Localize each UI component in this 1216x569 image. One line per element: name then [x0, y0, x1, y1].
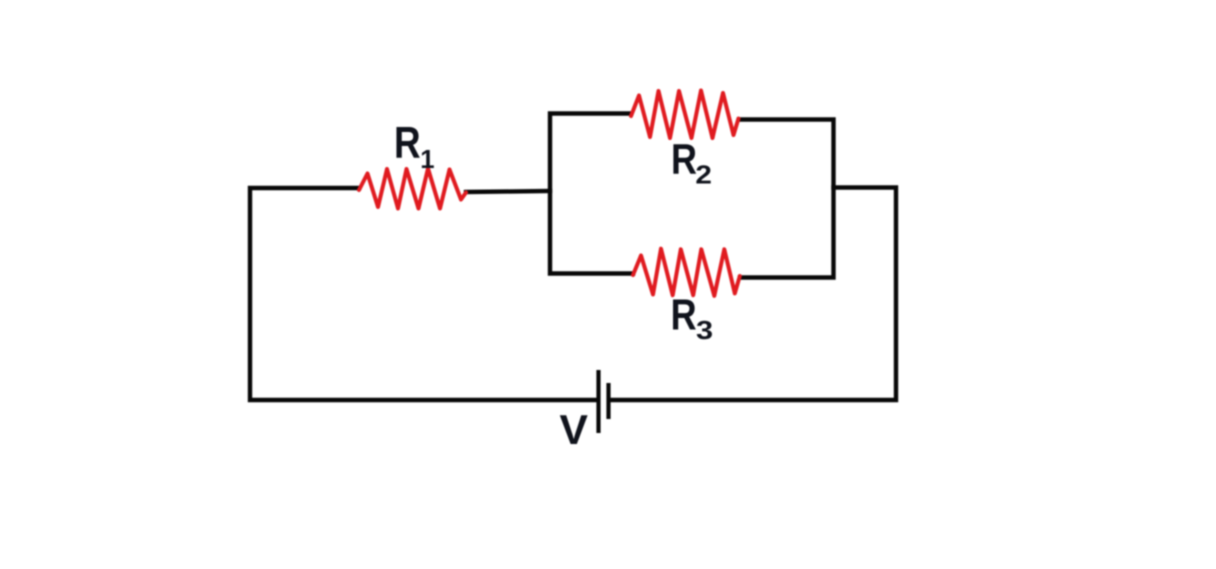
resistor R1 [359, 169, 466, 209]
svg-text:V: V [560, 406, 588, 453]
battery V: short plate [606, 383, 610, 419]
svg-text:R: R [671, 291, 697, 340]
resistor R2 [631, 91, 739, 139]
svg-text:1: 1 [420, 144, 434, 174]
svg-text:3: 3 [696, 315, 713, 345]
wire: parallel block left side (top branch left, left vertical, bottom branch left) [550, 114, 633, 274]
wire: right loop (middle horizontal, right outer vertical, bottom-right horizontal from battery) [610, 188, 896, 401]
wire: parallel block right side (top branch right stub, right vertical, bottom branch right stub) [739, 120, 834, 278]
label R1 [394, 119, 435, 175]
wire: left loop (main horizontal, left vertical, bottom-left horizontal to battery) [250, 188, 597, 400]
label R3 [671, 291, 714, 346]
svg-text:R: R [394, 119, 421, 168]
label R2 [671, 136, 712, 189]
wire: R1 right stub to parallel-block left vertical [466, 191, 550, 192]
battery V: long plate [596, 370, 600, 433]
svg-text:R: R [671, 136, 697, 183]
resistor R3 [633, 249, 740, 296]
svg-text:2: 2 [695, 159, 712, 189]
